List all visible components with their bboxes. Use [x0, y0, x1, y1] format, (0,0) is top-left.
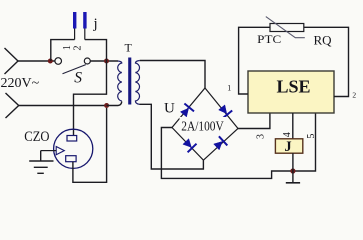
wire: relay contact right lead: [84, 29, 86, 40]
diode D4 (lower-right): [214, 136, 228, 150]
ground symbol: [29, 151, 53, 174]
wire: live input to switch: [18, 60, 55, 62]
wire: switch to junction and to transformer primary top: [90, 60, 118, 62]
wire: PTC to LSE pin 2: [304, 27, 349, 96]
svg-text:2: 2: [352, 91, 356, 100]
wire: relay contact left lead: [74, 29, 76, 40]
bridge rectifier U diamond: [172, 88, 238, 160]
diode D2 (upper-right): [219, 105, 233, 118]
socket CZO circle: [54, 129, 93, 168]
wire: relay branch right to switch junction: [85, 40, 107, 61]
LSE module box: [248, 71, 334, 113]
svg-text:2: 2: [73, 46, 84, 51]
terminal stub below J: [292, 171, 294, 183]
svg-text:PTC: PTC: [257, 32, 281, 46]
wire: left break chevron lower (220V input neutral): [6, 93, 19, 118]
wire: neutral rail to junction: [19, 105, 107, 107]
wire: bridge negative (left corner) to bottom rail: [161, 113, 315, 178]
svg-text:J: J: [284, 139, 291, 155]
wire: LSE pin 4 to relay coil J: [292, 113, 294, 139]
wire: switched live down to socket branch: [74, 61, 107, 136]
svg-text:1: 1: [227, 84, 231, 93]
thermistor PTC RQ body: [270, 24, 304, 32]
svg-text:LSE: LSE: [276, 77, 310, 97]
wire: relay branch left vertical: [51, 40, 75, 61]
svg-text:j: j: [93, 16, 98, 32]
diode D1 (upper-left): [180, 104, 194, 117]
wire: J to junction: [292, 153, 294, 171]
socket top slot: [67, 136, 77, 142]
wire: LSE pin 1 to PTC loop: [239, 27, 270, 94]
terminal bar: [286, 182, 300, 184]
wire: secondary bottom to bridge bottom: [140, 104, 204, 169]
svg-text:3: 3: [256, 134, 267, 139]
wire: bridge positive (right corner) to LSE pin 3: [238, 113, 270, 129]
svg-text:CZO: CZO: [24, 129, 49, 145]
wire: socket bottom return: [73, 108, 107, 182]
transformer T primary winding: [118, 61, 122, 101]
thermistor PTC strike line: [266, 17, 305, 38]
wire: neutral rail to transformer primary bottom: [107, 102, 122, 106]
wire: ground to socket: [41, 150, 56, 152]
svg-text:5: 5: [306, 134, 317, 139]
switch S left contact circle: [55, 58, 62, 65]
node: junction dot (j-branch left / live rail): [48, 59, 53, 64]
relay coil J box: [275, 139, 302, 153]
wire: left break chevron upper (220V input live): [5, 48, 19, 74]
relay contact j left bar: [73, 12, 76, 29]
svg-text:T: T: [125, 41, 133, 55]
svg-text:4: 4: [282, 132, 293, 137]
node: junction dot (switch output / j-branch right): [104, 59, 109, 64]
node: junction dot (relay coil J to negative rail): [290, 168, 295, 173]
socket ground-pin arrow: [56, 147, 64, 155]
switch S blade: [63, 65, 86, 74]
switch S right contact circle: [84, 58, 90, 64]
bridge rating label 2A/100V: [180, 117, 228, 133]
node: junction dot (neutral / socket return): [104, 103, 109, 108]
svg-text:RQ: RQ: [314, 33, 333, 48]
svg-text:U: U: [164, 101, 175, 117]
transformer T secondary winding: [135, 61, 139, 105]
transformer T core: [128, 58, 131, 105]
svg-text:2A/100V: 2A/100V: [181, 118, 224, 133]
svg-text:220V~: 220V~: [1, 76, 40, 91]
wire: secondary top to bridge top: [140, 61, 205, 89]
relay contact j right bar: [83, 12, 86, 29]
svg-text:1: 1: [62, 45, 73, 50]
svg-text:S: S: [74, 70, 82, 87]
socket bottom slot: [66, 156, 76, 162]
diode D3 (lower-left): [183, 139, 197, 153]
